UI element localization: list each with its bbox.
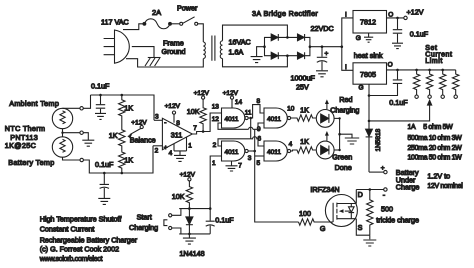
terminal +12V	[404, 16, 407, 19]
wire ring to top rail	[83, 95, 90, 108]
svg-text:1N5818: 1N5818	[375, 128, 382, 151]
svg-text:14: 14	[235, 99, 243, 106]
ground 7812	[364, 33, 373, 42]
node top 1K	[121, 94, 124, 97]
fuse F1 2A	[143, 19, 171, 29]
svg-text:+12V: +12V	[407, 7, 424, 16]
node gate1 output	[249, 117, 252, 120]
svg-text:+: +	[325, 51, 329, 58]
wire secondary top to bridge	[223, 25, 288, 41]
svg-text:Red: Red	[339, 95, 352, 104]
svg-text:Constant Current: Constant Current	[40, 224, 95, 233]
diode D1	[271, 34, 278, 41]
resistor R7 20 ohm	[440, 69, 446, 99]
current select arrow wire	[369, 100, 432, 121]
terminal battery plus	[384, 170, 387, 173]
svg-text:+12V: +12V	[131, 120, 147, 127]
resistor R8 50 ohm	[453, 70, 459, 99]
wire thermistor top	[63, 107, 80, 109]
terminal ring middle	[80, 131, 83, 134]
svg-text:0.1uF: 0.1uF	[389, 98, 408, 107]
label Battery Under Charge	[396, 168, 420, 192]
wire latch A to pin9	[255, 123, 264, 129]
svg-text:3: 3	[248, 155, 252, 162]
label 1.2V to 12V nominal	[427, 171, 463, 190]
potentiometer R2 1K balance	[119, 118, 141, 152]
svg-text:0.1uF: 0.1uF	[91, 82, 110, 91]
svg-text:10: 10	[287, 106, 295, 113]
svg-text:D: D	[358, 190, 363, 199]
svg-text:Battery Temp: Battery Temp	[8, 158, 54, 167]
svg-text:100ma 50 ohm 1W: 100ma 50 ohm 1W	[408, 155, 463, 162]
svg-text:11: 11	[245, 110, 252, 117]
svg-text:22VDC: 22VDC	[311, 24, 334, 33]
svg-text:G: G	[320, 224, 326, 233]
wire gate1 out down V1	[250, 118, 252, 139]
svg-text:13: 13	[212, 104, 220, 111]
diode D6 1N4148	[186, 208, 193, 234]
capacitor C5 0.1uF	[98, 173, 110, 204]
pin 7 output wire	[192, 113, 221, 134]
svg-text:1.6A: 1.6A	[229, 48, 244, 57]
svg-text:-: -	[164, 119, 166, 126]
resistor R5 5 ohm	[413, 69, 419, 99]
node 7812 out	[396, 17, 399, 20]
svg-text:Balance: Balance	[130, 136, 156, 145]
wire red led cathode	[334, 117, 340, 119]
svg-text:100: 100	[299, 209, 311, 218]
svg-text:2: 2	[213, 142, 217, 149]
svg-text:+12V: +12V	[223, 90, 239, 97]
top rail	[91, 95, 155, 120]
op-amp U1 311	[162, 118, 192, 151]
wire fuse to switch	[170, 23, 179, 25]
resistor R6 10 ohm	[426, 69, 432, 99]
wire 7812 output	[387, 17, 404, 19]
pin 8 wire	[173, 114, 175, 123]
label NTC Therm PNT113 1K@25C	[5, 124, 46, 150]
node bridge plus / cap	[321, 45, 324, 48]
svg-text:+12V: +12V	[165, 103, 181, 110]
resistor R10 500 trickle	[367, 190, 373, 236]
pin 7 ground wire	[226, 161, 238, 171]
svg-text:250ma 20 ohm 2W: 250ma 20 ohm 2W	[408, 145, 463, 152]
diode D3	[271, 52, 278, 59]
svg-text:NTC Therm: NTC Therm	[5, 124, 46, 133]
svg-text:Done: Done	[335, 163, 352, 172]
svg-text:+: +	[164, 144, 168, 151]
svg-text:311: 311	[171, 131, 182, 140]
svg-text:I: I	[345, 64, 347, 71]
capacitor C2 0.1uF	[392, 18, 403, 49]
svg-text:S: S	[358, 223, 363, 232]
terminal ring ambient	[80, 107, 83, 110]
svg-text:1000uF: 1000uF	[291, 74, 316, 83]
transistor Q1 IRFZ34N	[325, 195, 357, 227]
svg-text:4: 4	[169, 150, 173, 157]
svg-text:1A: 1A	[408, 124, 417, 131]
svg-text:2: 2	[155, 148, 159, 155]
chassis frame ground	[145, 58, 161, 67]
transformer T1	[203, 36, 222, 61]
wire V3 to mosfet gate	[255, 151, 299, 222]
svg-text:2A: 2A	[152, 8, 161, 17]
ground start rail	[179, 234, 210, 244]
AC plug P1 117VAC	[104, 30, 130, 63]
svg-text:I: I	[345, 11, 347, 18]
svg-text:G: G	[359, 85, 364, 92]
diode D4	[298, 52, 305, 59]
node gate2 output	[253, 150, 256, 153]
svg-text:Rechargeable Battery Charger: Rechargeable Battery Charger	[40, 236, 138, 245]
svg-text:0.1uF: 0.1uF	[410, 30, 429, 39]
svg-text:G: G	[356, 35, 361, 42]
nand gate U4a 4011	[222, 108, 249, 128]
svg-text:-: -	[383, 191, 386, 200]
svg-text:Start: Start	[137, 212, 152, 221]
node minus/500	[369, 188, 372, 191]
resistor R13 100	[299, 219, 334, 225]
svg-text:IRFZ34N: IRFZ34N	[310, 185, 339, 194]
terminal +12V gate	[230, 96, 233, 99]
node top cap	[99, 94, 102, 97]
resistor R9 10K start	[186, 181, 192, 209]
switch S1 Power	[180, 17, 198, 26]
pin 2 wire	[153, 145, 162, 147]
pin 14 wire	[231, 99, 233, 108]
led LED2 green	[316, 131, 334, 159]
wire battery minus	[356, 189, 383, 191]
svg-text:4011: 4011	[225, 149, 239, 156]
svg-text:500ma 10 ohm 3W: 500ma 10 ohm 3W	[408, 135, 463, 142]
node G/cap	[368, 94, 371, 97]
svg-text:5: 5	[257, 160, 261, 167]
terminal battery minus	[384, 188, 387, 191]
resistor R11 1K red	[291, 115, 317, 121]
label resistor table	[408, 124, 463, 162]
ground thermistor middle	[82, 133, 94, 147]
capacitor C4 0.1uF	[95, 95, 106, 119]
svg-text:O: O	[388, 11, 393, 18]
pushbutton S2 start	[164, 209, 181, 234]
svg-text:10K: 10K	[172, 192, 185, 201]
svg-text:1K@25C: 1K@25C	[5, 141, 36, 150]
wire mosfet source	[356, 219, 370, 236]
svg-text:0.1uF: 0.1uF	[215, 216, 234, 225]
node start cap	[209, 207, 212, 210]
node out/cap	[396, 69, 399, 72]
svg-text:4011: 4011	[267, 116, 281, 123]
pin 4 wire	[173, 144, 175, 151]
svg-text:10K: 10K	[187, 107, 200, 116]
svg-text:1K: 1K	[124, 155, 133, 164]
svg-text:16VAC: 16VAC	[229, 38, 251, 47]
resistor R12 1K green	[291, 147, 317, 153]
nand gate U4c 4011	[264, 108, 291, 128]
wire 7805 ground down	[368, 84, 370, 129]
wire pin1 to start node	[210, 156, 221, 209]
svg-text:7: 7	[193, 125, 197, 132]
wire 22V rail to 7812 input	[342, 18, 353, 47]
label Set Current Limit	[425, 45, 452, 65]
svg-text:1.2V to: 1.2V to	[427, 171, 450, 180]
svg-text:4011: 4011	[267, 149, 281, 156]
wire latch B to pin6 with hop	[251, 137, 264, 146]
svg-text:7812: 7812	[360, 18, 376, 27]
svg-text:O: O	[388, 62, 393, 69]
nand gate U4b 4011	[222, 141, 249, 161]
node bottom cap	[103, 172, 106, 175]
svg-text:www.solorb.com/elect: www.solorb.com/elect	[39, 254, 103, 263]
svg-text:1K: 1K	[300, 137, 309, 146]
svg-text:12: 12	[212, 116, 220, 123]
wire latch A to pin12 with hop	[218, 123, 255, 129]
svg-text:12V nominal: 12V nominal	[427, 183, 463, 190]
svg-text:Charging: Charging	[330, 106, 359, 115]
resistor R4 10K pullup	[200, 99, 206, 131]
terminal +12V balance	[140, 125, 143, 128]
ground 311	[174, 151, 187, 162]
ground bridge minus	[251, 57, 263, 63]
wire 22V rail to 7805 input	[342, 47, 353, 71]
capacitor C1 1000uF 25V	[316, 47, 328, 77]
wire 7805 output rail	[387, 69, 456, 71]
svg-text:8: 8	[176, 120, 180, 127]
svg-text:4011: 4011	[225, 116, 239, 123]
capacitor C3 0.1uF	[369, 70, 402, 96]
svg-text:3A Bridge Rectifier: 3A Bridge Rectifier	[252, 9, 318, 18]
svg-text:7: 7	[238, 162, 242, 169]
wire plug bottom to transformer primary	[126, 59, 203, 67]
svg-text:+12V: +12V	[180, 172, 196, 179]
svg-text:1: 1	[212, 160, 216, 167]
svg-text:5 ohm 5W: 5 ohm 5W	[423, 124, 453, 131]
wire V2 gate2 out up	[254, 129, 256, 151]
pin 3 wire	[154, 119, 162, 121]
svg-text:117 VAC: 117 VAC	[101, 18, 129, 27]
wire gate2 out	[248, 150, 255, 152]
svg-text:High Temperature Shutoff: High Temperature Shutoff	[40, 215, 122, 224]
resistor R3 1K	[119, 152, 125, 173]
svg-text:Green: Green	[332, 153, 352, 162]
wire frame ground tap	[132, 47, 154, 58]
wire switch to transformer primary	[198, 24, 204, 42]
node bottom 1K	[121, 172, 124, 175]
svg-text:25V: 25V	[296, 83, 309, 92]
svg-text:8: 8	[257, 98, 261, 105]
terminal +12V 311	[172, 111, 175, 114]
svg-text:4: 4	[289, 141, 293, 148]
svg-text:Limit: Limit	[425, 58, 443, 65]
wire mosfet drain	[355, 190, 357, 204]
diode D5 1N5818	[366, 129, 373, 172]
thermistor TH1 ambient	[52, 108, 72, 128]
wire start node	[179, 208, 210, 210]
wire to battery plus	[369, 171, 384, 173]
wire pin5 stub	[255, 155, 264, 157]
thermistor TH2 battery	[52, 137, 72, 157]
wire between thermistors	[63, 129, 80, 137]
wire latch B to pin2	[218, 139, 251, 146]
svg-text:Ambient Temp: Ambient Temp	[9, 99, 59, 108]
regulator U3 7805	[353, 63, 387, 84]
svg-text:trickle charge: trickle charge	[376, 216, 419, 225]
bridge minus tap to ground	[257, 47, 265, 56]
svg-text:1N4148: 1N4148	[179, 249, 204, 258]
node G/tap	[368, 120, 371, 123]
pin 1 wire	[186, 137, 188, 151]
svg-text:Ground: Ground	[162, 47, 186, 56]
diode D2	[298, 34, 305, 41]
svg-text:0.1uF: 0.1uF	[95, 160, 114, 169]
svg-text:500: 500	[381, 204, 393, 213]
wire gate1 out to pin8	[248, 105, 264, 118]
svg-text:1: 1	[188, 143, 192, 150]
svg-text:Charge: Charge	[396, 183, 420, 192]
svg-text:1K: 1K	[124, 103, 133, 112]
node start	[188, 207, 191, 210]
node 10K pullup	[202, 130, 205, 133]
svg-text:+12V: +12V	[194, 90, 210, 97]
node led common	[338, 133, 341, 136]
ground led	[340, 134, 360, 144]
regulator U2 7812	[353, 11, 387, 34]
svg-text:Power: Power	[177, 4, 198, 13]
resistor R1 1K	[119, 95, 125, 118]
svg-text:1K: 1K	[109, 131, 118, 140]
wire green led cathode	[334, 149, 340, 151]
svg-text:heat sink: heat sink	[354, 51, 383, 60]
nand gate U4d 4011	[264, 141, 291, 161]
wire ring to bottom rail	[83, 146, 153, 173]
svg-text:(c) G. Forrest Cook 2002: (c) G. Forrest Cook 2002	[40, 245, 120, 254]
wire bridge plus output	[310, 46, 342, 48]
svg-text:7805: 7805	[360, 70, 376, 79]
bridge rectifier BR1 frame	[265, 37, 310, 55]
wire plug top to fuse	[123, 24, 143, 30]
terminal +12V	[202, 96, 205, 99]
capacitor C6 0.1uF	[206, 209, 215, 234]
wire led common	[339, 118, 341, 150]
led LED1 red	[316, 99, 334, 127]
ground mosfet source	[363, 235, 376, 246]
svg-text:+: +	[381, 165, 385, 172]
svg-text:3: 3	[155, 114, 159, 121]
svg-text:1K: 1K	[300, 106, 309, 115]
terminal +12V start	[188, 178, 191, 181]
svg-text:Charging: Charging	[129, 223, 158, 232]
terminal ring battery	[80, 158, 83, 161]
wire thermistor bottom	[63, 157, 81, 160]
wire secondary bottom to bridge	[223, 56, 288, 67]
